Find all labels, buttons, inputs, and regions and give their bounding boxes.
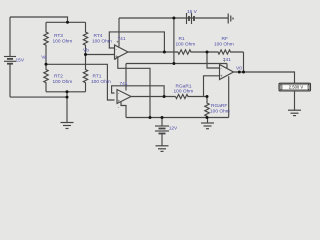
op-amp U2 V+ pin	[125, 64, 127, 91]
resistor RT2	[44, 64, 48, 92]
svg-text:2.500 V: 2.500 V	[289, 85, 304, 90]
svg-text:RGaRF: RGaRF	[211, 103, 227, 109]
node R1-RF junction	[206, 51, 209, 54]
resistor RT4	[83, 22, 87, 54]
op-amp U1 V- pin to bottom rail	[118, 56, 150, 117]
node bottom rail junction 3	[206, 116, 209, 119]
wire ground stem left	[66, 92, 68, 123]
op-amp U1 feedback wire	[109, 32, 164, 52]
resistor RGaR1	[176, 94, 208, 98]
wire battery V1 return	[10, 96, 67, 98]
svg-text:15 V: 15 V	[187, 9, 198, 15]
wire R1-RF junction to U3 inverting input	[207, 52, 220, 68]
svg-text:741: 741	[120, 81, 128, 87]
op-amp U2 feedback wire	[112, 86, 165, 97]
svg-text:RT1: RT1	[93, 73, 102, 79]
wire +V distribution drop	[173, 18, 175, 64]
battery V2 15V top	[187, 13, 195, 24]
svg-text:+: +	[223, 59, 226, 64]
node battery return junction	[66, 96, 69, 99]
node +V rail junction	[172, 17, 175, 20]
ground GND2 rotated	[228, 14, 233, 24]
svg-text:Vb: Vb	[83, 47, 89, 53]
svg-text:12V: 12V	[169, 126, 178, 132]
svg-text:100 Ohm: 100 Ohm	[176, 42, 196, 48]
node bottom rail junction 2	[161, 116, 164, 119]
node U1 feedback junction	[163, 51, 166, 54]
svg-text:100 Ohm: 100 Ohm	[214, 42, 234, 48]
wire voltmeter to ground	[294, 91, 296, 110]
op-amp U1 V+ pin	[118, 18, 120, 47]
voltmeter U4	[279, 83, 311, 91]
resistor R1	[167, 50, 207, 54]
svg-text:Va: Va	[41, 55, 47, 61]
op-amp U3 V+ pin	[226, 64, 228, 69]
node RGain junction	[206, 95, 209, 98]
op-amp U3 triangle	[220, 65, 234, 80]
wire +V rail 2	[119, 17, 228, 19]
node U2 feedback junction	[163, 95, 166, 98]
resistor RT3	[44, 22, 48, 64]
ground GND4	[201, 118, 214, 129]
svg-text:R1: R1	[179, 36, 185, 42]
battery V1 15V left	[4, 17, 16, 97]
svg-text:100 Ohm: 100 Ohm	[91, 79, 111, 85]
svg-text:+: +	[116, 40, 119, 45]
op-amp U1 output wire	[128, 51, 167, 53]
wire bridge bottom bar	[46, 91, 86, 93]
svg-text:100 Ohm: 100 Ohm	[92, 39, 112, 45]
node Va	[45, 63, 48, 66]
svg-text:100 Ohm: 100 Ohm	[53, 79, 73, 85]
svg-text:100 Ohm: 100 Ohm	[210, 109, 230, 115]
node U3 output junction 2	[242, 71, 245, 74]
node bottom bar junction	[66, 90, 69, 93]
op-amp U2 triangle	[117, 90, 131, 104]
wire bottom rail	[126, 117, 229, 119]
svg-text:RF: RF	[222, 36, 228, 42]
ground GND3	[156, 146, 169, 152]
resistor RT1	[83, 55, 87, 92]
wire +V distribution row	[126, 63, 227, 65]
svg-text:RT2: RT2	[54, 73, 63, 79]
resistor RGaRF	[205, 97, 209, 118]
op-amp U2 V- pin jog	[121, 102, 126, 118]
node Vb	[84, 53, 87, 56]
wire top-left rail	[10, 17, 68, 22]
svg-text:+: +	[118, 99, 121, 104]
svg-text:RT3: RT3	[54, 33, 63, 39]
ground GND5	[288, 110, 301, 115]
resistor RF	[207, 50, 244, 54]
node top bar junction	[66, 21, 69, 24]
node +V row junction	[172, 62, 175, 65]
ground GND1	[61, 123, 74, 129]
wire bridge top bar	[46, 21, 86, 23]
op-amp U1 triangle	[115, 45, 129, 59]
svg-text:100 Ohm: 100 Ohm	[174, 89, 194, 95]
op-amp U3 output wire	[234, 72, 295, 83]
svg-text:741: 741	[118, 36, 126, 42]
op-amp U2 output wire	[131, 96, 176, 98]
node bottom rail junction 1	[149, 116, 152, 119]
node U3 output junction 1	[238, 71, 241, 74]
node Vb wire to op-amp U1	[86, 54, 115, 56]
wire RF feedback drop	[243, 52, 245, 72]
svg-text:V0: V0	[236, 66, 242, 72]
wire RGain junction to U3 non-inverting input	[204, 76, 220, 97]
op-amp U3 V- pin	[228, 76, 230, 117]
svg-text:+: +	[220, 74, 223, 79]
battery V3 12V bottom	[155, 118, 169, 146]
svg-text:RGaR1: RGaR1	[176, 84, 192, 90]
svg-text:15V: 15V	[16, 58, 25, 64]
svg-text:RT4: RT4	[94, 33, 103, 39]
svg-text:100 Ohm: 100 Ohm	[53, 39, 73, 45]
node Va wire to op-amp U2	[46, 64, 115, 100]
